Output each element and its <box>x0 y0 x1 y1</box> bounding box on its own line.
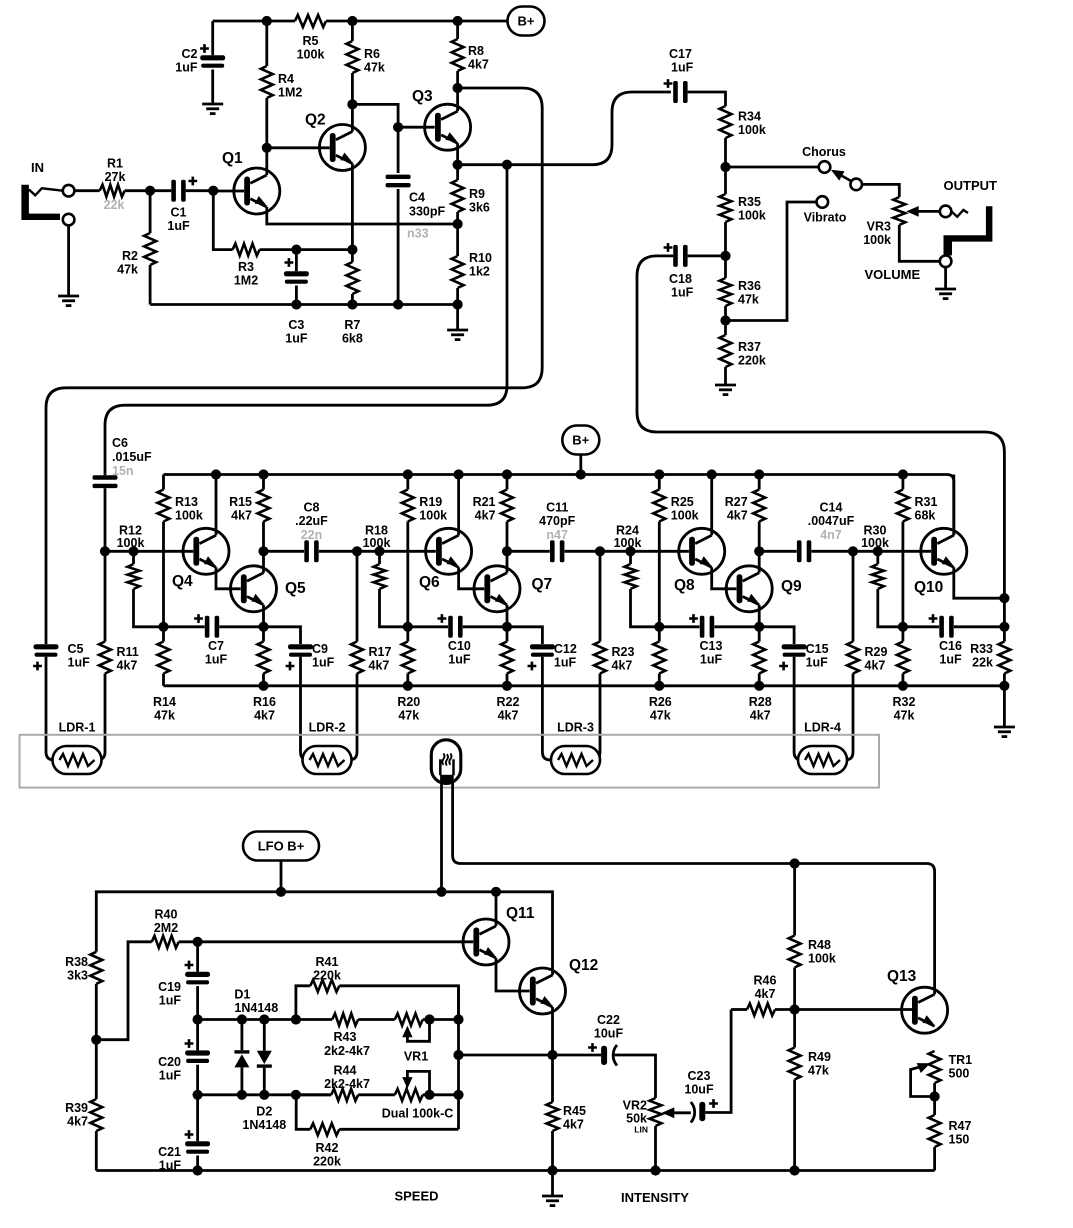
svg-text:R28: R28 <box>749 695 772 709</box>
transistor Q9 <box>726 566 772 612</box>
svg-text:R48: R48 <box>808 938 831 952</box>
junction R46-R48-R49 <box>790 1004 800 1014</box>
junction rail-R8 <box>453 16 463 26</box>
capacitor C17 <box>673 81 678 103</box>
junction LFOB+-rail <box>276 887 286 897</box>
wire bottom rail (top section) <box>150 303 458 306</box>
wire diode row top <box>198 1018 333 1021</box>
svg-text:Q8: Q8 <box>674 577 695 594</box>
power B+ (mid) <box>562 426 599 455</box>
svg-text:Q4: Q4 <box>172 573 193 590</box>
svg-text:VR3: VR3 <box>867 220 891 234</box>
svg-text:R45: R45 <box>563 1104 586 1118</box>
junction lamp-LFO rail <box>436 887 446 897</box>
junction R16-gnd rail <box>258 681 268 691</box>
svg-text:1k2: 1k2 <box>469 265 490 279</box>
svg-text:R33: R33 <box>970 642 993 656</box>
wire Q2 emitter <box>351 164 354 250</box>
resistor R36 <box>724 256 727 278</box>
svg-text:B+: B+ <box>518 14 535 29</box>
wire B+ stem (mid) <box>579 455 582 475</box>
junction R1-C1-R2 <box>145 186 155 196</box>
svg-text:C22: C22 <box>597 1013 620 1027</box>
svg-text:Q6: Q6 <box>419 574 440 591</box>
resistor R20 <box>406 627 409 642</box>
VR3 wiper <box>906 206 919 217</box>
svg-text:47k: 47k <box>738 293 759 307</box>
svg-text:R16: R16 <box>253 695 276 709</box>
svg-text:1uF: 1uF <box>312 656 335 670</box>
svg-text:IN: IN <box>31 160 44 175</box>
resistor R41 <box>296 986 310 1020</box>
svg-text:R38: R38 <box>65 955 88 969</box>
svg-text:50k: 50k <box>626 1112 647 1126</box>
svg-text:D1: D1 <box>234 988 250 1002</box>
wire Q5 collector <box>262 551 265 573</box>
svg-text:1uF: 1uF <box>285 332 308 346</box>
LDR-3 <box>551 746 600 774</box>
junction C16-R31-R32 <box>898 622 908 632</box>
resistor R16 <box>262 627 265 642</box>
svg-text:OUTPUT: OUTPUT <box>944 178 998 193</box>
junction R36-R37 <box>720 315 730 325</box>
LDR-2 <box>303 746 352 774</box>
svg-text:C3: C3 <box>288 318 304 332</box>
svg-text:1uF: 1uF <box>159 1069 182 1083</box>
capacitor C20 <box>196 1020 199 1051</box>
svg-text:R36: R36 <box>738 279 761 293</box>
capacitor C16 <box>903 625 939 628</box>
potentiometer VR3 <box>893 197 905 225</box>
junction C16-bus <box>999 622 1009 632</box>
switch arm <box>840 175 852 182</box>
svg-text:C16: C16 <box>939 639 962 653</box>
wire LFO ground rail <box>96 1169 934 1172</box>
svg-text:100k: 100k <box>808 952 836 966</box>
transistor Q13 <box>902 987 948 1033</box>
junction row1-D2 <box>259 1014 269 1024</box>
resistor R15 <box>262 475 265 490</box>
resistor R43 <box>332 1014 358 1026</box>
svg-text:4k7: 4k7 <box>369 659 390 673</box>
junction stage2 rbase <box>374 546 384 556</box>
svg-text:Q1: Q1 <box>222 150 243 167</box>
LDR-4 <box>798 746 847 774</box>
wire Q2 collector <box>351 104 354 131</box>
svg-text:R40: R40 <box>155 908 178 922</box>
svg-text:1uF: 1uF <box>159 1159 182 1173</box>
svg-text:LDR-2: LDR-2 <box>309 721 346 735</box>
svg-text:.22uF: .22uF <box>295 514 328 528</box>
resistor R28 <box>758 627 761 642</box>
capacitor C10 <box>408 625 448 628</box>
wire C3 to R7 node <box>296 248 352 251</box>
junction lamp rail-R48 <box>790 858 800 868</box>
wire Q9 collector <box>758 551 761 573</box>
svg-text:C1: C1 <box>171 206 187 220</box>
junction rail-Q6c <box>454 469 464 479</box>
svg-text:1N4148: 1N4148 <box>242 1118 286 1132</box>
svg-text:47k: 47k <box>117 263 138 277</box>
svg-text:27k: 27k <box>105 170 126 184</box>
capacitor C21 <box>196 1095 199 1141</box>
svg-text:R37: R37 <box>738 340 761 354</box>
junction stage3 input <box>595 546 605 556</box>
junction rail-R25 <box>654 469 664 479</box>
svg-text:15n: 15n <box>112 464 134 478</box>
junction stage1 bootstrap B <box>258 622 268 632</box>
resistor R49 <box>793 1010 796 1048</box>
potentiometer VR2 <box>650 1098 662 1126</box>
ground R37 <box>715 384 736 387</box>
svg-text:C13: C13 <box>700 639 723 653</box>
svg-text:68k: 68k <box>915 509 936 523</box>
capacitor C14 <box>759 550 797 553</box>
wire mid B+ rail <box>164 475 954 536</box>
svg-text:VR2: VR2 <box>623 1099 647 1113</box>
wire Q10 collector <box>952 475 955 536</box>
transistor Q11 <box>463 919 509 965</box>
transistor Q5 <box>231 566 277 612</box>
wire R40 to Q11 base <box>179 940 474 943</box>
svg-text:4k7: 4k7 <box>498 709 519 723</box>
svg-text:1uF: 1uF <box>806 656 829 670</box>
svg-text:R14: R14 <box>153 695 176 709</box>
resistor R42 <box>339 1128 458 1131</box>
resistor R30 <box>876 551 879 564</box>
junction R32-gnd rail <box>898 681 908 691</box>
resistor R45 <box>547 1102 559 1131</box>
capacitor C5 <box>45 642 48 646</box>
svg-text:C12: C12 <box>554 642 577 656</box>
transistor Q6 <box>426 528 472 574</box>
junction rail-R4 <box>262 16 272 26</box>
svg-text:R21: R21 <box>473 495 496 509</box>
svg-text:10uF: 10uF <box>684 1083 714 1097</box>
svg-text:R1: R1 <box>107 157 123 171</box>
svg-text:1uF: 1uF <box>205 653 228 667</box>
wire Q1 collector <box>265 148 268 175</box>
svg-text:LDR-1: LDR-1 <box>59 721 96 735</box>
ground mid rail <box>1003 686 1006 726</box>
ground top rail <box>456 305 459 330</box>
svg-text:C8: C8 <box>304 501 320 515</box>
svg-text:Q9: Q9 <box>781 578 802 595</box>
svg-text:22n: 22n <box>301 528 323 542</box>
svg-text:Q5: Q5 <box>285 580 306 597</box>
svg-text:R25: R25 <box>671 495 694 509</box>
svg-text:100k: 100k <box>863 233 891 247</box>
ground LFO <box>551 1171 554 1196</box>
resistor R32 <box>902 627 905 642</box>
wire Q6 collector <box>457 475 460 536</box>
resistor R1 <box>74 189 99 192</box>
svg-text:22k: 22k <box>972 656 993 670</box>
resistor R2 <box>149 191 152 233</box>
resistor R27 <box>758 475 761 490</box>
trimmer TR1 <box>929 1051 941 1083</box>
svg-text:100k: 100k <box>861 536 889 550</box>
svg-text:R9: R9 <box>469 187 485 201</box>
capacitor C8 <box>264 550 305 553</box>
svg-text:C21: C21 <box>158 1145 181 1159</box>
transistor Q2 <box>319 125 365 171</box>
resistor R48 <box>793 864 796 936</box>
junction Q1c-R4-Q2b <box>262 143 272 153</box>
svg-text:2M2: 2M2 <box>154 921 178 935</box>
transistor Q7 <box>474 566 520 612</box>
wire vibrato tap <box>726 202 817 321</box>
junction C18-R35-R36 <box>720 251 730 261</box>
wire R46 node to Q13 base <box>795 1008 912 1011</box>
resistor R5 <box>295 15 326 27</box>
svg-text:1N4148: 1N4148 <box>234 1001 278 1015</box>
svg-text:LDR-3: LDR-3 <box>557 721 594 735</box>
svg-text:4k7: 4k7 <box>254 709 275 723</box>
wire Q3 collector <box>456 88 459 111</box>
ground OUTPUT <box>935 288 956 291</box>
svg-text:4n7: 4n7 <box>820 528 842 542</box>
svg-text:R3: R3 <box>238 260 254 274</box>
resistor R31 <box>902 475 905 490</box>
junction Q3e-R9 <box>453 160 463 170</box>
wire chorus <box>726 166 819 169</box>
power B+ (top) <box>508 7 545 36</box>
svg-text:4k7: 4k7 <box>231 509 252 523</box>
wire Q7 emitter <box>506 605 509 627</box>
svg-text:C7: C7 <box>208 639 224 653</box>
resistor R23 <box>599 551 602 641</box>
resistor R21 <box>506 475 509 490</box>
wire stage1 base node <box>105 550 193 553</box>
svg-text:R20: R20 <box>397 695 420 709</box>
junction stage4 input <box>848 546 858 556</box>
capacitor C1 <box>150 189 171 192</box>
svg-text:100k: 100k <box>297 48 325 62</box>
junction stage3 bootstrap B <box>754 622 764 632</box>
svg-text:R29: R29 <box>865 645 888 659</box>
svg-text:R34: R34 <box>738 110 761 124</box>
svg-text:Q11: Q11 <box>506 905 535 922</box>
svg-text:150: 150 <box>949 1133 970 1147</box>
potentiometer VR1 upper <box>395 1014 423 1026</box>
capacitor C22 <box>553 1054 602 1057</box>
resistor R38 <box>90 952 102 984</box>
wire OUTPUT sleeve <box>944 267 947 288</box>
svg-text:1uF: 1uF <box>939 653 962 667</box>
svg-text:R43: R43 <box>334 1030 357 1044</box>
svg-text:Q7: Q7 <box>532 576 553 593</box>
svg-text:C5: C5 <box>68 642 84 656</box>
junction VR1a-wiper <box>424 1014 434 1024</box>
wire Q6 emitter <box>459 567 485 589</box>
svg-text:R6: R6 <box>364 47 380 61</box>
junction rail-R15 <box>258 469 268 479</box>
svg-text:R11: R11 <box>117 645 139 659</box>
resistor R8 <box>456 21 459 39</box>
svg-text:2k2-4k7: 2k2-4k7 <box>324 1077 370 1091</box>
svg-text:R19: R19 <box>419 495 442 509</box>
wire bus to Q12e <box>459 1054 553 1057</box>
svg-text:Chorus: Chorus <box>802 145 846 159</box>
wire Q1 emitter to R9/R10 <box>267 207 458 224</box>
svg-text:470pF: 470pF <box>539 514 575 528</box>
svg-text:R39: R39 <box>65 1101 88 1115</box>
capacitor C13 <box>659 625 699 628</box>
svg-text:C18: C18 <box>669 272 692 286</box>
capacitor C7 <box>164 625 205 628</box>
svg-text:6k8: 6k8 <box>342 332 363 346</box>
svg-text:C20: C20 <box>158 1055 181 1069</box>
svg-text:VOLUME: VOLUME <box>865 267 921 282</box>
junction Q10e-output bus <box>999 593 1009 603</box>
svg-text:4k7: 4k7 <box>865 659 886 673</box>
resistor R34 <box>720 106 732 138</box>
resistor R37 <box>724 321 727 336</box>
wire Q3 emitter to C17 <box>458 92 671 165</box>
resistor R19 <box>406 475 409 490</box>
switch contact Vibrato <box>817 196 829 208</box>
svg-text:SPEED: SPEED <box>394 1189 438 1204</box>
junction R3-C3 <box>291 245 301 255</box>
transistor Q1 <box>234 168 280 214</box>
svg-text:1uF: 1uF <box>68 656 91 670</box>
diode D2 <box>263 1020 266 1051</box>
svg-text:100k: 100k <box>671 509 699 523</box>
svg-text:C6: C6 <box>112 436 128 450</box>
wire lamp feed rail <box>453 783 935 994</box>
junction C21-gnd rail <box>193 1165 203 1175</box>
junction R26-gnd rail <box>654 681 664 691</box>
junction Q12e-C22 <box>547 1050 557 1060</box>
junction rail-R21 <box>502 469 512 479</box>
svg-text:INTENSITY: INTENSITY <box>621 1190 689 1205</box>
junction R27-Q9c <box>754 546 764 556</box>
svg-text:D2: D2 <box>256 1105 272 1119</box>
svg-text:.0047uF: .0047uF <box>808 514 855 528</box>
resistor R13 <box>162 475 165 490</box>
svg-text:330pF: 330pF <box>409 205 445 219</box>
wire VR bus <box>457 986 460 1130</box>
svg-text:Q12: Q12 <box>569 957 598 974</box>
wire Q8 collector <box>710 475 713 536</box>
ground C2 <box>202 103 223 106</box>
resistor R35 <box>724 167 727 194</box>
junction rail-Q4c <box>211 469 221 479</box>
svg-text:100k: 100k <box>738 123 766 137</box>
svg-text:C2: C2 <box>182 47 198 61</box>
svg-text:220k: 220k <box>313 969 341 983</box>
svg-text:100k: 100k <box>419 509 447 523</box>
svg-text:4k7: 4k7 <box>67 1115 88 1129</box>
svg-text:22k: 22k <box>104 198 125 212</box>
svg-text:Q13: Q13 <box>887 968 917 985</box>
resistor R10 <box>456 224 459 256</box>
junction TR1-R47 <box>930 1091 940 1101</box>
svg-text:1uF: 1uF <box>448 653 471 667</box>
svg-text:R13: R13 <box>175 495 198 509</box>
power LFO B+ <box>243 832 319 861</box>
svg-text:C19: C19 <box>158 980 181 994</box>
capacitor C12 <box>507 627 542 644</box>
resistor R33 <box>1003 627 1006 642</box>
junction R45-gnd rail <box>547 1165 557 1175</box>
svg-text:n47: n47 <box>546 528 568 542</box>
svg-text:TR1: TR1 <box>949 1053 973 1067</box>
wire Q8 emitter <box>712 567 737 589</box>
svg-text:1uF: 1uF <box>159 994 182 1008</box>
junction stage1 input <box>100 546 110 556</box>
svg-text:100k: 100k <box>363 536 391 550</box>
junction rail-R19 <box>403 469 413 479</box>
svg-text:R49: R49 <box>808 1050 831 1064</box>
resistor R12 <box>132 551 135 564</box>
junction stage1 bootstrap A <box>158 622 168 632</box>
resistor R14 <box>162 627 165 642</box>
diode D1 <box>240 1020 243 1051</box>
svg-text:C14: C14 <box>820 501 843 515</box>
svg-text:R42: R42 <box>316 1141 339 1155</box>
svg-text:VR1: VR1 <box>404 1050 428 1064</box>
wire LFO rail <box>96 892 552 975</box>
junction R20-gnd rail <box>403 681 413 691</box>
wire Q5 emitter <box>262 605 265 627</box>
junction row1-bus <box>453 1014 463 1024</box>
junction R33-gnd rail <box>999 681 1009 691</box>
LDR-1 <box>53 746 102 774</box>
junction C1-Q1-R3 <box>208 186 218 196</box>
svg-text:R41: R41 <box>316 955 339 969</box>
resistor R46 <box>731 1008 747 1011</box>
capacitor C15 <box>759 627 794 644</box>
svg-text:100k: 100k <box>175 509 203 523</box>
junction stage3 bootstrap A <box>654 622 664 632</box>
resistor R40 <box>96 942 151 1040</box>
svg-text:4k7: 4k7 <box>750 709 771 723</box>
svg-text:4k7: 4k7 <box>468 58 489 72</box>
svg-text:R17: R17 <box>369 645 392 659</box>
junction VR2-gnd rail <box>650 1165 660 1175</box>
capacitor C6 <box>104 473 107 475</box>
svg-text:R5: R5 <box>303 34 319 48</box>
ground IN <box>58 295 79 298</box>
svg-text:4k7: 4k7 <box>117 659 138 673</box>
svg-text:220k: 220k <box>313 1155 341 1169</box>
svg-text:2k2-4k7: 2k2-4k7 <box>324 1044 370 1058</box>
svg-text:47k: 47k <box>894 709 915 723</box>
svg-text:1uF: 1uF <box>700 653 723 667</box>
capacitor C4 <box>397 127 400 173</box>
junction R8-Q3c <box>453 83 463 93</box>
svg-text:R7: R7 <box>344 318 360 332</box>
transistor Q8 <box>679 528 725 574</box>
resistor R3 <box>233 244 260 256</box>
junction stage1 rbase <box>128 546 138 556</box>
wire LFO B+ stem <box>280 861 283 892</box>
wire stage4 base node <box>853 550 931 553</box>
svg-text:Q2: Q2 <box>305 112 326 129</box>
junction R40-C19 <box>193 937 203 947</box>
wire stage2 base node <box>357 550 436 553</box>
svg-text:Dual 100k-C: Dual 100k-C <box>382 1107 454 1121</box>
svg-text:R26: R26 <box>649 695 672 709</box>
junction stage2 input <box>352 546 362 556</box>
jack OUTPUT <box>940 206 952 218</box>
svg-text:R31: R31 <box>915 495 938 509</box>
svg-text:LDR-4: LDR-4 <box>804 721 841 735</box>
resistor R29 <box>852 551 855 641</box>
resistor R4 <box>265 21 268 66</box>
